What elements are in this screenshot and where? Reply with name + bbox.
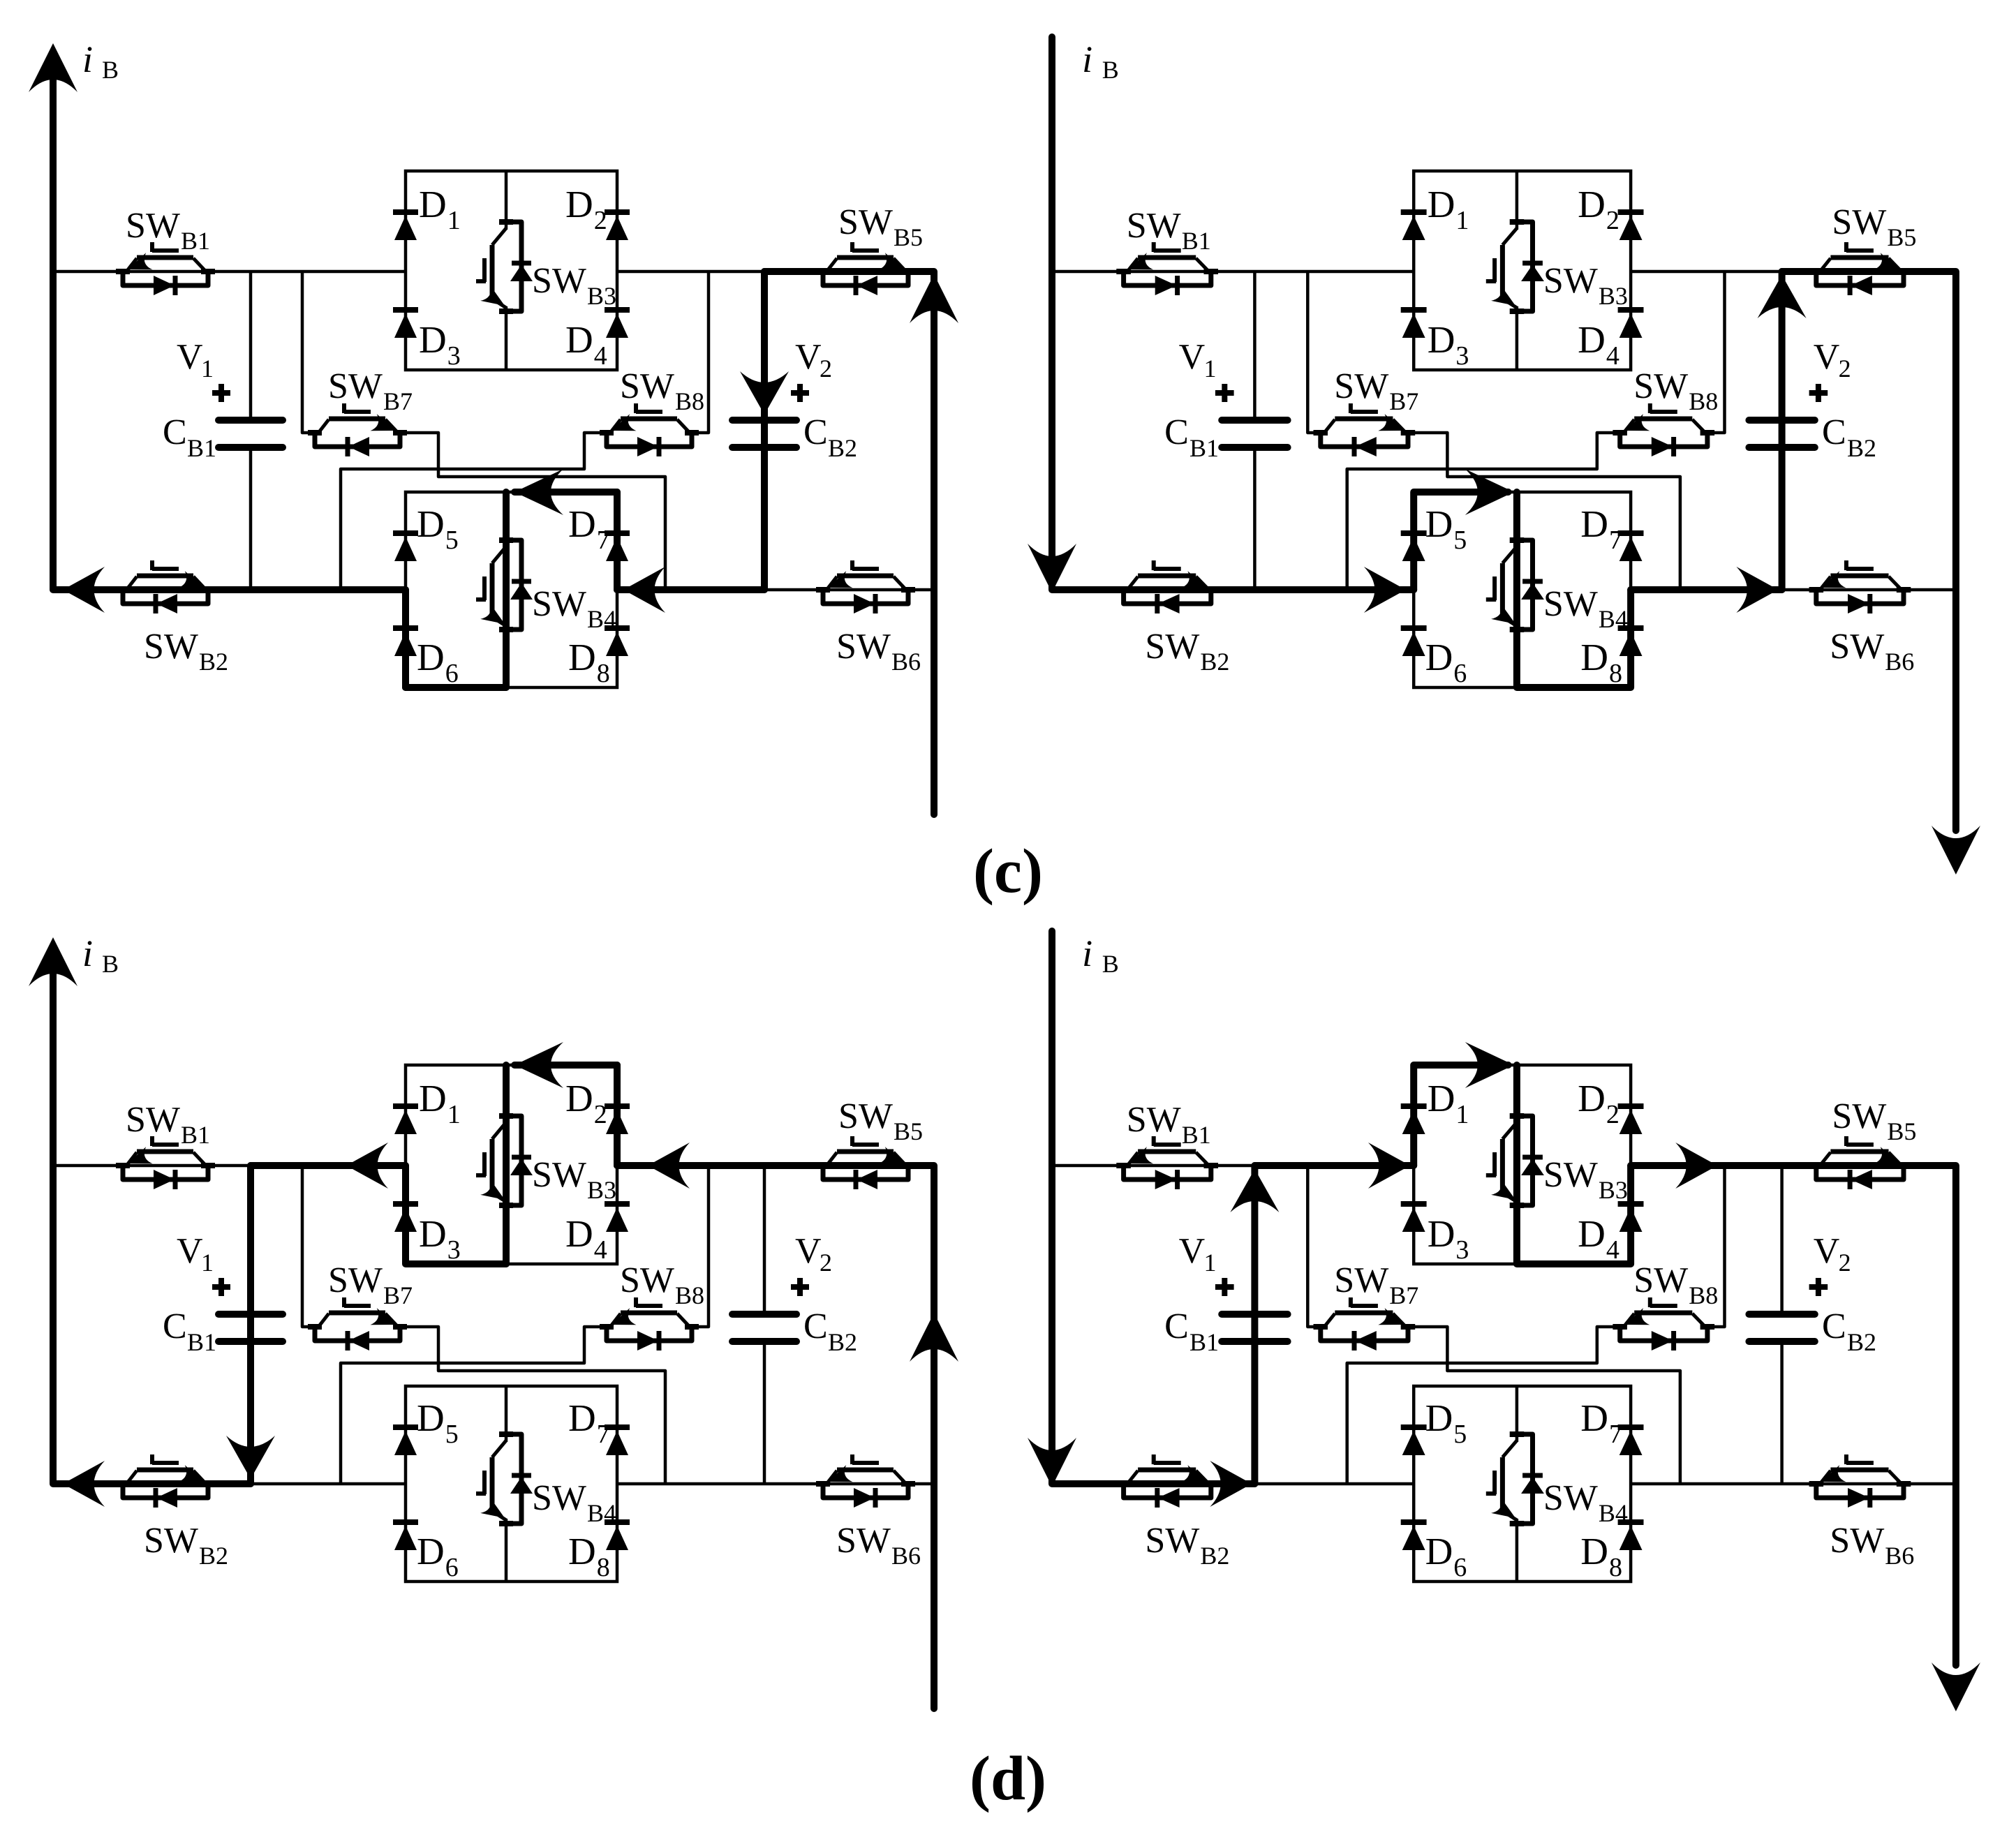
svg-text:6: 6 [445, 1553, 459, 1582]
switch SW_B6 emitter arrow [1821, 571, 1846, 588]
switch SW_B1 gate [1154, 248, 1181, 253]
switch SW_B8 emitter arrow [1625, 1308, 1650, 1325]
switch SW_B3 IGBT legs [492, 1122, 506, 1139]
switch SW_B3 antiparallel diode [512, 1155, 531, 1160]
switch SW_B7 gate [1351, 1304, 1378, 1308]
svg-text:D: D [1425, 636, 1453, 678]
diode D8 [1618, 1519, 1644, 1525]
svg-text:SW: SW [144, 1521, 198, 1561]
svg-text:B3: B3 [587, 282, 616, 310]
switch SW_B3 IGBT legs [492, 228, 506, 245]
switch SW_B3 antiparallel diode loop [1518, 222, 1533, 311]
svg-text:V: V [1179, 337, 1206, 377]
switch SW_B2 antiparallel diode [1158, 594, 1180, 613]
switch SW_B6 emitter arrow [828, 1465, 853, 1482]
svg-text:SW: SW [836, 627, 891, 667]
switch SW_B2 antiparallel diode loop [123, 1485, 208, 1498]
switch SW_B7 antiparallel diode loop [315, 1328, 400, 1341]
switch SW_B5 gate [1846, 1143, 1874, 1147]
capacitor C_B1 plates [1222, 1311, 1287, 1318]
switch SW_B7 IGBT legs [319, 1314, 329, 1326]
svg-text:SW: SW [1543, 584, 1598, 624]
svg-text:C: C [163, 1307, 187, 1346]
(c)-right wire: C_B2 branch [1780, 271, 1784, 417]
switch SW_B7 IGBT bar [1335, 1311, 1393, 1316]
switch SW_B1 antiparallel diode [1155, 1170, 1177, 1189]
switch SW_B1 terminal ticks [116, 1163, 130, 1168]
switch SW_B2 gate [152, 567, 179, 571]
(c)-right wire: bottom rail left [1052, 588, 1414, 592]
switch SW_B5 IGBT legs [827, 1152, 837, 1165]
switch SW_B3 gate [482, 1152, 487, 1176]
svg-text:D: D [419, 318, 447, 361]
switch SW_B4 antiparallel diode [512, 579, 531, 584]
svg-text:D: D [1578, 318, 1606, 361]
(c)-right bridge 2 center line [1515, 492, 1519, 548]
svg-text:B6: B6 [1885, 1542, 1914, 1570]
switch SW_B2 antiparallel diode [156, 594, 177, 613]
(c)-right current arrow into bridge2 top center [1465, 469, 1514, 515]
switch SW_B3 terminal ticks [499, 1113, 513, 1119]
svg-text:D: D [417, 1530, 445, 1572]
(c)-right wire: top rail to SW_B8 branch [1707, 271, 1725, 433]
svg-text:B5: B5 [894, 1117, 923, 1145]
switch SW_B6 IGBT legs [827, 1471, 837, 1483]
switch SW_B2 IGBT bar [137, 1468, 193, 1473]
(d)-right current arrow toward SW_B5 [1675, 1143, 1717, 1189]
svg-text:C: C [1822, 1307, 1846, 1346]
svg-text:1: 1 [201, 1249, 214, 1277]
svg-text:1: 1 [1455, 206, 1469, 235]
(d)-right wire: C_B2 branch [1780, 1166, 1784, 1311]
switch SW_B2 terminal ticks [1116, 587, 1131, 593]
svg-text:B1: B1 [181, 1121, 210, 1149]
svg-text:8: 8 [1609, 1553, 1622, 1582]
diode D4 [605, 307, 630, 313]
switch SW_B8 antiparallel diode [637, 1331, 658, 1350]
(c)-left wire: C_B2 branch [763, 271, 766, 417]
svg-text:V: V [1179, 1231, 1206, 1271]
switch SW_B8 IGBT legs [1624, 419, 1634, 432]
switch SW_B5 emitter arrow [879, 253, 904, 269]
switch SW_B7 IGBT bar [1335, 417, 1393, 422]
svg-text:D: D [568, 1397, 596, 1439]
diode D5 [1401, 530, 1427, 536]
svg-text:SW: SW [620, 1260, 674, 1300]
svg-text:D: D [419, 1212, 447, 1255]
svg-text:D: D [419, 183, 447, 225]
(d)-right current arrow i_B in at bottom of left rail [1028, 1438, 1076, 1487]
switch SW_B6 terminal ticks [816, 1481, 830, 1487]
diode D3 [393, 1201, 418, 1207]
(d)-left bridge 2 box [406, 1386, 617, 1582]
(d)-right current arrow into bridge1 top center [1465, 1042, 1514, 1088]
switch SW_B8 terminal ticks [1613, 1324, 1627, 1330]
svg-text:SW: SW [532, 1155, 586, 1195]
switch SW_B6 antiparallel diode loop [1816, 1485, 1904, 1498]
switch SW_B1 gate [152, 248, 179, 253]
svg-text:V: V [1814, 337, 1840, 377]
switch SW_B3 IGBT bar [1500, 1139, 1505, 1193]
switch SW_B2 IGBT bar [1138, 574, 1196, 579]
switch SW_B7 antiparallel diode [1355, 437, 1377, 456]
diode D8 [605, 625, 630, 631]
svg-text:D: D [1428, 318, 1455, 361]
switch SW_B6 IGBT bar [837, 574, 894, 579]
svg-text:D: D [1428, 1212, 1455, 1255]
diode D6 [1401, 1519, 1427, 1525]
switch SW_B7 antiparallel diode [348, 1331, 369, 1350]
svg-text:3: 3 [1455, 341, 1469, 371]
svg-text:1: 1 [1204, 1249, 1217, 1277]
switch SW_B6 terminal ticks [816, 587, 830, 593]
svg-text:7: 7 [1609, 526, 1622, 555]
svg-text:B2: B2 [1200, 1542, 1229, 1570]
switch SW_B8 emitter arrow [612, 414, 637, 431]
switch SW_B4 antiparallel diode loop [507, 540, 521, 630]
(d)-left wire: C_B1 branch [249, 1166, 253, 1311]
(c)-right label plus right [1809, 390, 1828, 396]
diode D1 [393, 209, 418, 215]
switch SW_B4 emitter arrow [1491, 604, 1515, 624]
(d)-left wire: top rail to SW_B7 branch [302, 1166, 315, 1327]
svg-text:3: 3 [447, 341, 461, 371]
svg-text:SW: SW [1830, 627, 1884, 667]
(d)-right wire: bottom rail left [1052, 1482, 1414, 1486]
diode D6 [1401, 625, 1427, 631]
switch SW_B5 IGBT legs [827, 258, 837, 271]
svg-text:5: 5 [1453, 1420, 1467, 1449]
switch SW_B3 terminal ticks [1510, 1113, 1525, 1119]
switch SW_B5 terminal ticks [816, 269, 830, 274]
switch SW_B8 gate [636, 410, 662, 414]
diode D3 [1401, 307, 1427, 313]
capacitor C_B2 plates [1749, 417, 1814, 424]
switch SW_B5 gate [1846, 248, 1874, 253]
switch SW_B8 IGBT bar [621, 417, 677, 422]
switch SW_B5 antiparallel diode loop [823, 1167, 908, 1180]
svg-text:6: 6 [445, 659, 459, 688]
(c)-left wire: top rail right [617, 270, 934, 274]
(c)-left current arrow toward bridge2 [623, 567, 665, 613]
switch SW_B6 antiparallel diode loop [1816, 591, 1904, 604]
switch SW_B4 antiparallel diode loop [1518, 1434, 1533, 1524]
diode D3 [1401, 1201, 1427, 1207]
svg-text:B: B [102, 950, 119, 978]
switch SW_B7 terminal ticks [1314, 1324, 1328, 1330]
(d)-left current arrow toward C_B1 [346, 1143, 388, 1189]
switch SW_B8 antiparallel diode [1652, 437, 1673, 456]
svg-text:B1: B1 [187, 1328, 216, 1356]
(c)-right wire: top rail right [1631, 270, 1956, 274]
(c)-left bridge 1 center line [505, 171, 508, 230]
switch SW_B3 IGBT bar [490, 1139, 495, 1193]
switch SW_B5 emitter arrow [1874, 1147, 1898, 1163]
switch SW_B2 antiparallel diode [1158, 1488, 1180, 1508]
switch SW_B5 IGBT bar [1830, 255, 1888, 260]
svg-text:4: 4 [594, 1235, 607, 1265]
diode D6 [393, 625, 418, 631]
svg-text:V: V [177, 337, 203, 377]
switch SW_B6 terminal ticks [1809, 587, 1824, 593]
svg-text:B1: B1 [1182, 1121, 1211, 1149]
capacitor C_B1 plates [218, 1311, 283, 1318]
switch SW_B3 emitter arrow [1491, 285, 1515, 306]
diode D2 [1618, 209, 1644, 215]
svg-text:8: 8 [597, 1553, 610, 1582]
switch SW_B7 terminal ticks [308, 1324, 322, 1330]
switch SW_B3 IGBT legs [1502, 1122, 1517, 1139]
switch SW_B4 antiparallel diode [1522, 1473, 1543, 1478]
svg-text:2: 2 [1839, 1249, 1851, 1277]
(d)-right current arrow toward C_B1 [1210, 1461, 1252, 1507]
switch SW_B4 IGBT bar [1500, 1457, 1505, 1512]
switch SW_B4 emitter arrow [480, 604, 505, 624]
(c)-left wire: bottom rail right [617, 588, 934, 592]
svg-text:2: 2 [594, 1100, 607, 1129]
switch SW_B3 antiparallel diode [512, 261, 531, 266]
switch SW_B1 antiparallel diode [1155, 276, 1177, 295]
(c)-right wire: SW_B8 to left bottom-rail crossover [1347, 433, 1620, 590]
switch SW_B1 IGBT bar [1138, 1149, 1196, 1154]
svg-text:D: D [1578, 183, 1606, 225]
svg-text:(d): (d) [970, 1744, 1046, 1813]
svg-text:D: D [568, 636, 596, 678]
switch SW_B2 terminal ticks [1116, 1481, 1131, 1487]
svg-text:SW: SW [1832, 1096, 1886, 1136]
(c)-left wire: top rail to SW_B8 branch [692, 271, 709, 433]
svg-text:V: V [177, 1231, 203, 1271]
switch SW_B3 gate [1492, 258, 1497, 282]
svg-text:C: C [1164, 1307, 1189, 1346]
svg-text:1: 1 [201, 355, 214, 382]
diode D4 [605, 1201, 630, 1207]
(d)-right bridge 1 box [1414, 1065, 1631, 1264]
switch SW_B2 IGBT legs [1128, 1471, 1138, 1483]
(c)-left current arrow into bridge2 top center [514, 469, 563, 515]
switch SW_B8 antiparallel diode loop [1620, 434, 1707, 447]
diode D7 [605, 530, 630, 536]
svg-text:SW: SW [1127, 1100, 1181, 1140]
(c)-right bold current path [1052, 37, 1414, 590]
switch SW_B1 antiparallel diode loop [123, 1167, 208, 1180]
(d)-left wire: top rail left [53, 1164, 406, 1168]
switch SW_B1 terminal ticks [116, 269, 130, 274]
switch SW_B4 IGBT bar [1500, 563, 1505, 618]
svg-text:SW: SW [328, 366, 383, 406]
switch SW_B8 terminal ticks [600, 430, 614, 436]
(d)-left wire: top rail right [617, 1164, 934, 1168]
switch SW_B7 terminal ticks [308, 430, 322, 436]
svg-text:D: D [568, 503, 596, 545]
switch SW_B8 IGBT bar [1634, 417, 1692, 422]
(c)-right current arrow to the right [1364, 567, 1406, 613]
switch SW_B6 emitter arrow [1821, 1465, 1846, 1482]
(d)-left current arrow i_B out top [29, 937, 77, 986]
(d)-right wire: top rail right [1631, 1164, 1956, 1168]
svg-text:4: 4 [594, 341, 607, 371]
svg-text:D: D [1578, 1077, 1606, 1119]
svg-text:B3: B3 [1599, 282, 1628, 310]
svg-text:B4: B4 [1599, 1499, 1628, 1527]
svg-text:B7: B7 [383, 1281, 413, 1309]
svg-text:5: 5 [1453, 526, 1467, 555]
(d)-right current arrow up through C_B1 [1230, 1169, 1279, 1212]
svg-text:B8: B8 [1689, 1281, 1718, 1309]
switch SW_B2 antiparallel diode [156, 1488, 177, 1508]
svg-text:D: D [1428, 183, 1455, 225]
switch SW_B7 IGBT bar [329, 1311, 385, 1316]
svg-text:1: 1 [1455, 1100, 1469, 1129]
(d)-right label plus left [1215, 1284, 1234, 1290]
(c)-left bold current path [53, 56, 406, 590]
switch SW_B3 antiparallel diode [1522, 261, 1543, 266]
svg-text:1: 1 [447, 1100, 461, 1129]
capacitor C_B2 plates [732, 1311, 796, 1318]
switch SW_B8 IGBT bar [621, 1311, 677, 1316]
svg-text:B7: B7 [1389, 387, 1418, 415]
svg-text:B7: B7 [1389, 1281, 1418, 1309]
svg-text:SW: SW [532, 261, 586, 301]
(c)-right bridge 1 center line [1515, 171, 1519, 230]
switch SW_B8 antiparallel diode loop [1620, 1328, 1707, 1341]
svg-text:2: 2 [1606, 206, 1620, 235]
diode D2 [1618, 1103, 1644, 1109]
(d)-left wire: C_B2 branch [763, 1166, 766, 1311]
svg-text:B8: B8 [1689, 387, 1718, 415]
(d)-left bridge 1 center line [505, 1065, 508, 1124]
(c)-right current arrow i_B in at bottom of left rail [1028, 544, 1076, 593]
(c)-right wire: top rail left [1052, 270, 1414, 274]
switch SW_B6 IGBT bar [1830, 1468, 1888, 1473]
svg-text:7: 7 [597, 526, 610, 555]
switch SW_B1 antiparallel diode loop [1124, 273, 1211, 285]
switch SW_B3 terminal ticks [499, 219, 513, 225]
svg-text:B8: B8 [675, 1281, 704, 1309]
switch SW_B6 IGBT legs [827, 576, 837, 589]
svg-text:SW: SW [838, 1096, 893, 1136]
switch SW_B6 IGBT legs [1821, 1471, 1830, 1483]
svg-text:SW: SW [1830, 1521, 1884, 1561]
switch SW_B2 emitter arrow [179, 571, 204, 588]
diode D5 [1401, 1424, 1427, 1430]
svg-text:2: 2 [820, 1249, 832, 1277]
switch SW_B8 emitter arrow [1625, 414, 1650, 431]
svg-text:C: C [1822, 412, 1846, 452]
svg-text:4: 4 [1606, 341, 1620, 371]
switch SW_B8 antiparallel diode loop [607, 434, 692, 447]
svg-text:7: 7 [597, 1420, 610, 1449]
switch SW_B4 gate [1492, 1471, 1497, 1494]
(c)-right bridge 1 box [1414, 171, 1631, 370]
svg-text:B: B [1102, 950, 1119, 978]
(d)-right current arrow i_B return down [1932, 1662, 1980, 1711]
(c)-right wire: top rail to SW_B7 branch [1307, 271, 1321, 433]
switch SW_B1 emitter arrow [128, 253, 153, 269]
switch SW_B7 antiparallel diode [1355, 1331, 1377, 1350]
switch SW_B6 gate [1846, 567, 1874, 571]
switch SW_B8 emitter arrow [612, 1308, 637, 1325]
switch SW_B5 IGBT legs [1821, 258, 1830, 271]
svg-text:D: D [565, 318, 593, 361]
svg-text:D: D [417, 1397, 445, 1439]
switch SW_B6 antiparallel diode loop [823, 1485, 908, 1498]
svg-text:SW: SW [532, 584, 586, 624]
svg-text:2: 2 [594, 206, 607, 235]
switch SW_B4 gate [482, 576, 487, 600]
switch SW_B1 IGBT bar [137, 255, 193, 260]
switch SW_B4 emitter arrow [480, 1498, 505, 1518]
svg-text:D: D [565, 1212, 593, 1255]
(d)-left wire: SW_B8 to left bottom-rail crossover [341, 1327, 607, 1484]
svg-text:5: 5 [445, 1420, 459, 1449]
switch SW_B1 antiparallel diode loop [123, 273, 208, 285]
switch SW_B7 emitter arrow [1378, 1308, 1403, 1325]
switch SW_B4 IGBT bar [490, 563, 495, 618]
switch SW_B2 IGBT bar [137, 574, 193, 579]
diode D1 [1401, 1103, 1427, 1109]
diode D2 [605, 209, 630, 215]
capacitor C_B1 plates [218, 417, 283, 424]
switch SW_B5 IGBT bar [1830, 1149, 1888, 1154]
switch SW_B4 terminal ticks [499, 1431, 513, 1437]
svg-text:SW: SW [144, 627, 198, 667]
svg-text:B2: B2 [828, 1328, 857, 1356]
switch SW_B2 IGBT legs [127, 1471, 137, 1483]
svg-text:SW: SW [1543, 1155, 1598, 1195]
svg-text:D: D [1580, 636, 1608, 678]
switch SW_B5 IGBT bar [837, 1149, 894, 1154]
diode D5 [393, 1424, 418, 1430]
switch SW_B7 IGBT legs [1325, 419, 1335, 432]
switch SW_B4 IGBT legs [492, 546, 506, 563]
svg-text:SW: SW [836, 1521, 891, 1561]
svg-text:B3: B3 [1599, 1176, 1628, 1204]
switch SW_B4 terminal ticks [1510, 1431, 1525, 1437]
switch SW_B8 terminal ticks [600, 1324, 614, 1330]
switch SW_B2 terminal ticks [116, 587, 130, 593]
diode D2 [605, 1103, 630, 1109]
(d)-left bridge 2 center line [505, 1386, 508, 1442]
switch SW_B8 IGBT bar [1634, 1311, 1692, 1316]
svg-text:D: D [1580, 1397, 1608, 1439]
svg-text:i: i [1082, 38, 1092, 80]
svg-text:B5: B5 [894, 223, 923, 251]
(d)-right wire: top rail to SW_B8 branch [1707, 1166, 1725, 1327]
switch SW_B5 antiparallel diode [1851, 1170, 1872, 1189]
switch SW_B8 IGBT legs [611, 1314, 621, 1326]
(d)-right current arrow into bridge1 [1368, 1143, 1410, 1189]
svg-text:8: 8 [597, 659, 610, 688]
(d)-right wire: SW_B7 to right bottom-rail crossover [1408, 1327, 1680, 1484]
(c)-left bridge 2 box [406, 492, 617, 687]
switch SW_B8 IGBT legs [611, 419, 621, 432]
(d)-left current arrow toward bridge1 [648, 1143, 690, 1189]
switch SW_B1 gate [152, 1143, 179, 1147]
svg-text:B4: B4 [1599, 605, 1628, 633]
(c)-left wire: top rail left [53, 270, 406, 274]
switch SW_B1 IGBT legs [127, 258, 137, 271]
switch SW_B3 antiparallel diode [1522, 1155, 1543, 1160]
switch SW_B2 gate [1154, 1461, 1181, 1465]
switch SW_B6 gate [1846, 1461, 1874, 1465]
svg-text:B2: B2 [828, 434, 857, 462]
(d)-left label plus left [212, 1284, 230, 1290]
switch SW_B4 antiparallel diode [1522, 579, 1543, 584]
switch SW_B7 antiparallel diode [348, 437, 369, 456]
(c)-right current arrow i_B return down [1932, 826, 1980, 875]
switch SW_B7 emitter arrow [1378, 414, 1403, 431]
